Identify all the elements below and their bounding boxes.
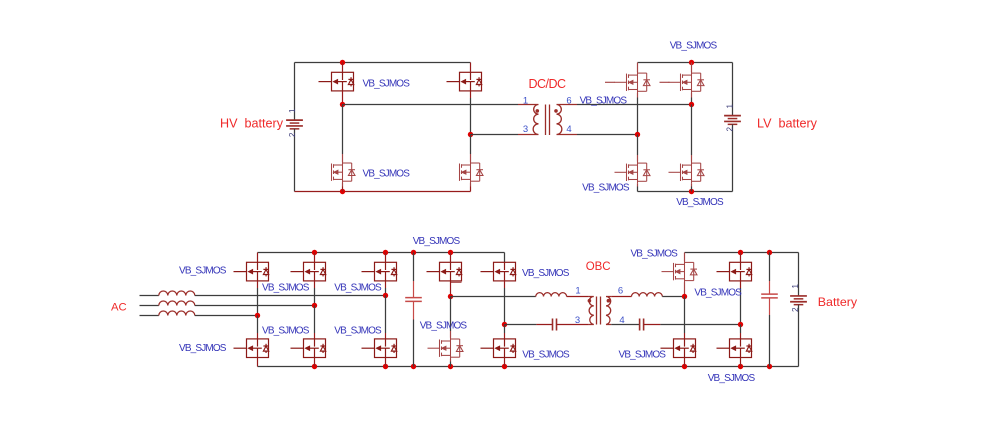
junction: top rail / bridge-2 left leg (448, 250, 453, 255)
wire: HV battery positive lead (vertical) (294, 63, 296, 121)
junction: bottom rail / output bridge left leg (682, 364, 687, 369)
wire: source stub of Q8 (691, 183, 693, 186)
transformer T1 (DC/DC) (518, 105, 577, 136)
inductor LC (phase 3 boost inductor) (159, 311, 195, 316)
svg-text:VB_SJMOS: VB_SJMOS (262, 325, 310, 336)
svg-text:VB_SJMOS: VB_SJMOS (262, 283, 310, 294)
transistor Q17 VB_SJMOS (boxed MOSFET, bridge-2 top-right) (481, 262, 516, 281)
wire: HV bridge top rail (295, 62, 471, 64)
svg-text:VB_SJMOS: VB_SJMOS (179, 266, 227, 277)
wire: Cr1 to T2 pin 3 lead (557, 324, 589, 326)
battery BT2 LV battery (724, 116, 741, 125)
junction: bottom rail / output cap (767, 364, 772, 369)
junction: bridge-2 right leg midpoint (to resonant C) (502, 322, 507, 327)
junction: output top rail / output cap (767, 250, 772, 255)
junction: bottom rail / bridge-2 right leg (502, 364, 507, 369)
junction: bottom rail / leg 3 (383, 364, 388, 369)
capacitor C2 (output filter) (761, 294, 778, 298)
svg-text:VB_SJMOS: VB_SJMOS (334, 283, 382, 294)
transistor Q5 VB_SJMOS (MOSFET, LV bridge top-left) (615, 71, 651, 93)
wire: source lead of Q12 (314, 358, 316, 367)
svg-text:Battery: Battery (818, 295, 858, 309)
svg-text:OBC: OBC (586, 261, 611, 273)
transistor Q21 VB_SJMOS (boxed MOSFET, output bridge top-right) (717, 262, 752, 281)
capacitor C1 (DC-link) (405, 298, 422, 302)
wire: PFC leg 1 vertical lower (257, 316, 259, 334)
wire: net from T1 pin 4 to LV left leg mid (577, 134, 638, 136)
wire: drain lead of Q7 (691, 63, 693, 73)
wire: LV battery positive lead (732, 63, 734, 116)
battery BT1 HV battery (286, 120, 303, 129)
wire: source lead of Q1 (342, 91, 344, 103)
junction: HV right leg midpoint (node to T1 pin3) (468, 132, 473, 137)
junction: output top rail / right leg (738, 250, 743, 255)
svg-text:VB_SJMOS: VB_SJMOS (670, 41, 718, 52)
wire: bridge-2 right leg vertical lower (504, 325, 506, 334)
wire: output battery negative lead (798, 305, 800, 367)
wire: source stub of Q5 (637, 93, 639, 98)
transistor Q22 VB_SJMOS (boxed MOSFET, output bridge bottom-right) (717, 339, 752, 358)
capacitor Cr2 (resonant, secondary) (640, 319, 644, 331)
transistor Q9 VB_SJMOS (boxed MOSFET, PFC leg 1 top) (234, 262, 269, 281)
wire: bridge-2 mid to resonant inductor Lr1 (451, 296, 536, 298)
wire: PFC leg 1 vertical (257, 288, 259, 316)
wire: output capacitor top lead (769, 253, 771, 282)
svg-text:VB_SJMOS: VB_SJMOS (420, 321, 468, 332)
wire: AC phase 1 input (140, 295, 159, 297)
wire: source lead of Q20 (684, 358, 686, 367)
wire: source lead of Q8 (691, 187, 693, 192)
svg-text:VB_SJMOS: VB_SJMOS (580, 96, 628, 107)
junction: PFC leg 1 midpoint / phase (255, 313, 260, 318)
wire: HV right leg vertical (470, 98, 472, 135)
svg-text:VB_SJMOS: VB_SJMOS (334, 325, 382, 336)
transistor Q3 VB_SJMOS (boxed MOSFET, HV bridge top-right) (447, 72, 482, 91)
junction: bottom rail / leg 2 (312, 364, 317, 369)
junction: bottom rail / output bridge right leg (738, 364, 743, 369)
wire: source lead of Q18 (504, 358, 506, 367)
svg-text:VB_SJMOS: VB_SJMOS (619, 350, 667, 361)
svg-text:VB_SJMOS: VB_SJMOS (363, 168, 411, 179)
wire: AC phase 3 input (140, 315, 159, 317)
transistor Q14 VB_SJMOS (boxed MOSFET, PFC leg 3 bottom) (362, 339, 397, 358)
wire: source lead of Q16 (450, 362, 452, 367)
transistor Q16 VB_SJMOS (MOSFET, bridge-2 bottom-left) (428, 337, 464, 359)
wire: drain stub of Q6 (637, 155, 639, 162)
wire: LV battery negative lead (732, 124, 734, 191)
inductor Lr2 (resonant, secondary) (632, 293, 663, 297)
wire: drain stub of Q2 (342, 154, 344, 162)
wire: net from T1 pin 6 to LV right leg mid (577, 104, 692, 106)
wire: source stub of Q17 (504, 281, 506, 288)
wire: HV battery negative lead (vertical) (294, 129, 296, 192)
wire: drain lead of Q15 (450, 253, 452, 263)
wire: PFC leg 3 vertical lower (385, 296, 387, 334)
inductor LA (phase 1 boost inductor) (159, 291, 195, 296)
wire: source lead of Q19 (684, 282, 686, 296)
svg-text:DC/DC: DC/DC (529, 77, 567, 91)
svg-text:VB_SJMOS: VB_SJMOS (708, 373, 756, 384)
svg-text:1: 1 (726, 103, 735, 108)
wire: OBC DC- bottom rail (258, 366, 799, 368)
transistor Q12 VB_SJMOS (boxed MOSFET, PFC leg 2 bottom) (291, 339, 326, 358)
wire: drain lead of Q11 (314, 253, 316, 263)
wire: Cr1 left lead (536, 324, 552, 326)
wire: phase 3 to PFC leg 1 midpoint (195, 315, 258, 317)
wire: source stub of Q13 (385, 281, 387, 288)
wire: PFC leg 3 vertical (385, 288, 387, 296)
wire: T2 pin 4 to resonant cap Cr2 (611, 324, 639, 326)
transistor Q15 VB_SJMOS (boxed MOSFET, bridge-2 top-left) (427, 262, 462, 281)
wire: drain stub of Q18 (504, 333, 506, 339)
wire: drain stub of Q8 (691, 155, 693, 162)
wire: output left leg vertical (684, 297, 686, 334)
transistor Q19 VB_SJMOS (MOSFET, output bridge top-left) (662, 261, 698, 283)
wire: drain lead of Q17 (504, 253, 506, 263)
svg-text:LV battery: LV battery (757, 117, 818, 131)
wire: source lead of Q10 (257, 358, 259, 367)
wire: source stub of Q21 (740, 281, 742, 288)
svg-text:1: 1 (288, 108, 297, 113)
wire: DC-link capacitor bottom lead (413, 320, 415, 367)
wire: drain stub of Q10 (257, 333, 259, 339)
wire: net from HV left leg mid to T1 pin 1 (343, 104, 519, 106)
wire: LV left leg vertical (637, 98, 639, 135)
wire: drain stub of Q16 (450, 331, 452, 338)
wire: output bridge top rail (685, 252, 799, 254)
wire: phase 1 to PFC leg 3 midpoint (195, 295, 386, 297)
wire: drain lead of Q3 (470, 63, 472, 72)
transistor Q6 VB_SJMOS (MOSFET, LV bridge bottom-left) (615, 161, 651, 183)
wire: LV bridge bottom rail (638, 191, 733, 193)
wire: PFC leg 2 vertical (314, 288, 316, 306)
junction: bottom rail / DC-link cap (411, 364, 416, 369)
wire: output capacitor bottom lead (769, 315, 771, 367)
svg-text:VB_SJMOS: VB_SJMOS (522, 350, 570, 361)
svg-text:AC: AC (111, 302, 127, 314)
inductor LB (phase 2 boost inductor) (159, 301, 195, 306)
svg-text:VB_SJMOS: VB_SJMOS (179, 343, 227, 354)
junction: HV left leg midpoint (node to T1 pin1) (340, 102, 345, 107)
wire: OBC DC+ top rail (258, 252, 505, 254)
wire: bridge-2 right leg vertical (504, 288, 506, 325)
svg-text:VB_SJMOS: VB_SJMOS (694, 287, 742, 298)
wire: source stub of Q15 (450, 281, 452, 297)
transistor Q13 VB_SJMOS (boxed MOSFET, PFC leg 3 top) (362, 262, 397, 281)
svg-text:VB_SJMOS: VB_SJMOS (413, 236, 461, 247)
transistor Q20 VB_SJMOS (boxed MOSFET, output bridge bottom-left) (661, 339, 696, 358)
transistor Q2 VB_SJMOS (MOSFET, HV bridge bottom-left) (332, 161, 356, 183)
wire: source stub of Q16 (450, 359, 452, 362)
wire: phase 2 to PFC leg 2 midpoint (195, 305, 315, 307)
svg-text:VB_SJMOS: VB_SJMOS (582, 183, 630, 194)
wire: output right leg vertical lower (740, 325, 742, 334)
wire: Lr1 to T2 pin 1 lead (567, 296, 589, 298)
wire: source stub of Q4 (470, 183, 472, 187)
svg-text:VB_SJMOS: VB_SJMOS (630, 249, 678, 260)
junction: HV bottom rail / left leg (340, 189, 345, 194)
wire: drain lead of Q13 (385, 253, 387, 263)
svg-text:2: 2 (288, 132, 297, 137)
wire: drain stub of Q12 (314, 333, 316, 339)
junction: LV left leg midpoint (T1 pin 4 net) (635, 132, 640, 137)
wire: source lead of Q6 (637, 187, 639, 192)
wire: source lead of Q4 (470, 187, 472, 192)
svg-text:1: 1 (791, 283, 800, 288)
junction: top rail / leg 2 (312, 250, 317, 255)
wire: source stub of Q2 (342, 183, 344, 187)
wire: drain lead of Q1 (342, 63, 344, 72)
junction: PFC leg 3 midpoint / phase (383, 293, 388, 298)
wire: drain stub of Q4 (470, 154, 472, 162)
wire: output battery positive lead (798, 253, 800, 296)
wire: LV bridge top rail (638, 62, 733, 64)
wire: bridge-2 right mid to resonant cap Cr1 (505, 324, 537, 326)
transistor Q7 VB_SJMOS (MOSFET, LV bridge top-right) (669, 71, 705, 93)
wire: drain stub of Q20 (684, 333, 686, 339)
wire: drain lead of Q5 (637, 63, 639, 73)
wire: LV right leg vertical to Q8 (691, 105, 693, 156)
svg-text:6: 6 (618, 286, 623, 297)
capacitor Cr1 (resonant, primary) (553, 319, 557, 331)
junction: LV right leg midpoint (T1 pin 6 net) (689, 102, 694, 107)
wire: DC-link capacitor top lead (413, 253, 415, 282)
wire: PFC leg 2 vertical lower (314, 306, 316, 334)
junction: top rail / DC-link cap (411, 250, 416, 255)
svg-text:VB_SJMOS: VB_SJMOS (522, 268, 570, 279)
transistor Q1 VB_SJMOS (boxed MOSFET, HV bridge top-left) (319, 72, 354, 91)
junction: PFC leg 2 midpoint / phase (312, 303, 317, 308)
wire: source stub of Q9 (257, 281, 259, 288)
svg-text:6: 6 (566, 95, 571, 106)
wire: AC phase 2 input (140, 305, 159, 307)
wire: source lead of Q2 (342, 187, 344, 192)
wire: Cr2 to output bridge right leg mid (660, 324, 740, 326)
svg-text:2: 2 (726, 126, 735, 131)
wire: LV right leg vertical (691, 98, 693, 105)
wire: source lead of Q22 (740, 358, 742, 367)
wire: HV right leg vertical to Q4 (470, 135, 472, 155)
wire: drain lead of Q9 (257, 253, 259, 263)
junction: output bridge right leg midpoint (pin4 net) (738, 322, 743, 327)
svg-text:VB_SJMOS: VB_SJMOS (676, 197, 724, 208)
svg-text:1: 1 (575, 286, 580, 297)
wire: T2 pin 6 lead to Lr2 (611, 296, 631, 298)
svg-text:3: 3 (523, 124, 528, 135)
battery BT3 (traction battery) (790, 296, 807, 305)
wire: drain stub of Q14 (385, 333, 387, 339)
svg-text:HV battery: HV battery (220, 117, 284, 131)
wire: source stub of Q3 (470, 91, 472, 98)
junction: bottom rail / bridge-2 left leg (448, 364, 453, 369)
wire: drain lead of Q19 (684, 253, 686, 262)
junction: HV top rail / left leg (340, 60, 345, 65)
junction: top rail / leg 3 (383, 250, 388, 255)
junction: bridge-2 left leg midpoint (to resonant L) (448, 294, 453, 299)
svg-text:2: 2 (791, 307, 800, 312)
transistor Q4 VB_SJMOS (MOSFET, HV bridge bottom-right) (460, 161, 484, 183)
junction: LV bottom rail / right leg (689, 189, 694, 194)
wire: Cr2 right lead (644, 324, 661, 326)
svg-text:3: 3 (575, 315, 580, 326)
wire: source stub of Q6 (637, 183, 639, 186)
wire: LV left leg vertical to Q6 (637, 135, 639, 156)
wire: Lr2 to output bridge left leg mid (662, 296, 684, 298)
wire: source stub of Q11 (314, 281, 316, 288)
transistor Q10 VB_SJMOS (boxed MOSFET, PFC leg 1 bottom) (234, 339, 269, 358)
svg-text:4: 4 (566, 124, 571, 135)
junction: LV top rail / right leg (689, 60, 694, 65)
wire: net from HV right leg mid to T1 pin 3 (471, 134, 519, 136)
svg-text:1: 1 (523, 95, 528, 106)
transistor Q18 VB_SJMOS (boxed MOSFET, bridge-2 bottom-right) (481, 339, 516, 358)
wire: HV bridge bottom rail (red) (295, 191, 471, 193)
transistor Q8 VB_SJMOS (MOSFET, LV bridge bottom-right) (669, 161, 705, 183)
wire: bridge-2 left leg vertical (450, 297, 452, 332)
wire: output right leg vertical (740, 288, 742, 325)
wire: drain lead of Q21 (740, 253, 742, 263)
wire: source stub of Q7 (691, 93, 693, 98)
inductor Lr1 (resonant, primary) (536, 293, 567, 297)
transformer T2 (OBC isolation transformer) (588, 297, 612, 325)
junction: output bridge left leg midpoint (pin6 net) (682, 294, 687, 299)
wire: source lead of Q14 (385, 358, 387, 367)
transistor Q11 VB_SJMOS (boxed MOSFET, PFC leg 2 top) (291, 262, 326, 281)
svg-text:VB_SJMOS: VB_SJMOS (363, 79, 411, 90)
wire: drain stub of Q22 (740, 333, 742, 339)
wire: HV left leg vertical to Q2 (342, 105, 344, 155)
